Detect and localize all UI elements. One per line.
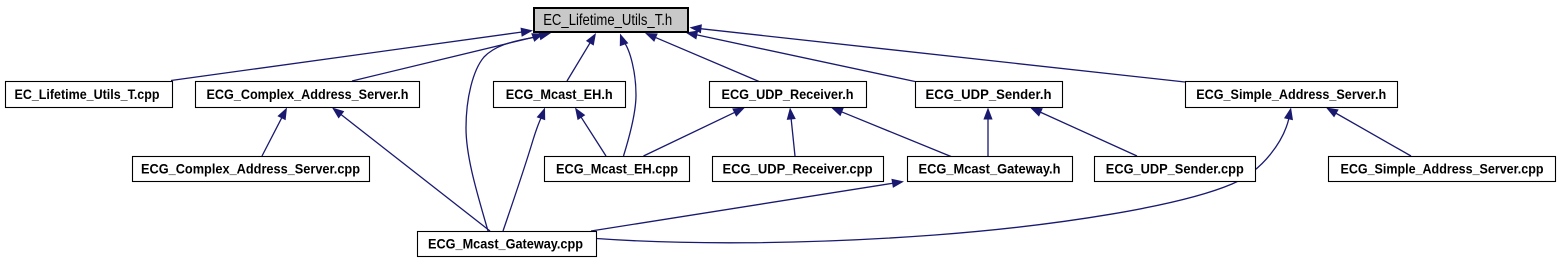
svg-text:ECG_UDP_Sender.h: ECG_UDP_Sender.h [926,86,1052,102]
svg-text:EC_Lifetime_Utils_T.h: EC_Lifetime_Utils_T.h [543,12,672,29]
svg-text:ECG_Simple_Address_Server.cpp: ECG_Simple_Address_Server.cpp [1341,161,1544,177]
svg-text:ECG_Mcast_EH.cpp: ECG_Mcast_EH.cpp [556,161,678,177]
svg-text:ECG_Mcast_Gateway.cpp: ECG_Mcast_Gateway.cpp [428,236,583,252]
svg-text:ECG_UDP_Receiver.cpp: ECG_UDP_Receiver.cpp [723,161,873,177]
svg-text:ECG_UDP_Sender.cpp: ECG_UDP_Sender.cpp [1106,161,1244,177]
svg-text:ECG_Complex_Address_Server.cpp: ECG_Complex_Address_Server.cpp [141,161,360,177]
svg-text:EC_Lifetime_Utils_T.cpp: EC_Lifetime_Utils_T.cpp [15,86,160,102]
svg-text:ECG_Mcast_Gateway.h: ECG_Mcast_Gateway.h [919,161,1061,177]
svg-text:ECG_Simple_Address_Server.h: ECG_Simple_Address_Server.h [1196,86,1386,102]
svg-text:ECG_Complex_Address_Server.h: ECG_Complex_Address_Server.h [207,86,409,102]
svg-text:ECG_UDP_Receiver.h: ECG_UDP_Receiver.h [722,86,854,102]
svg-text:ECG_Mcast_EH.h: ECG_Mcast_EH.h [506,86,613,102]
